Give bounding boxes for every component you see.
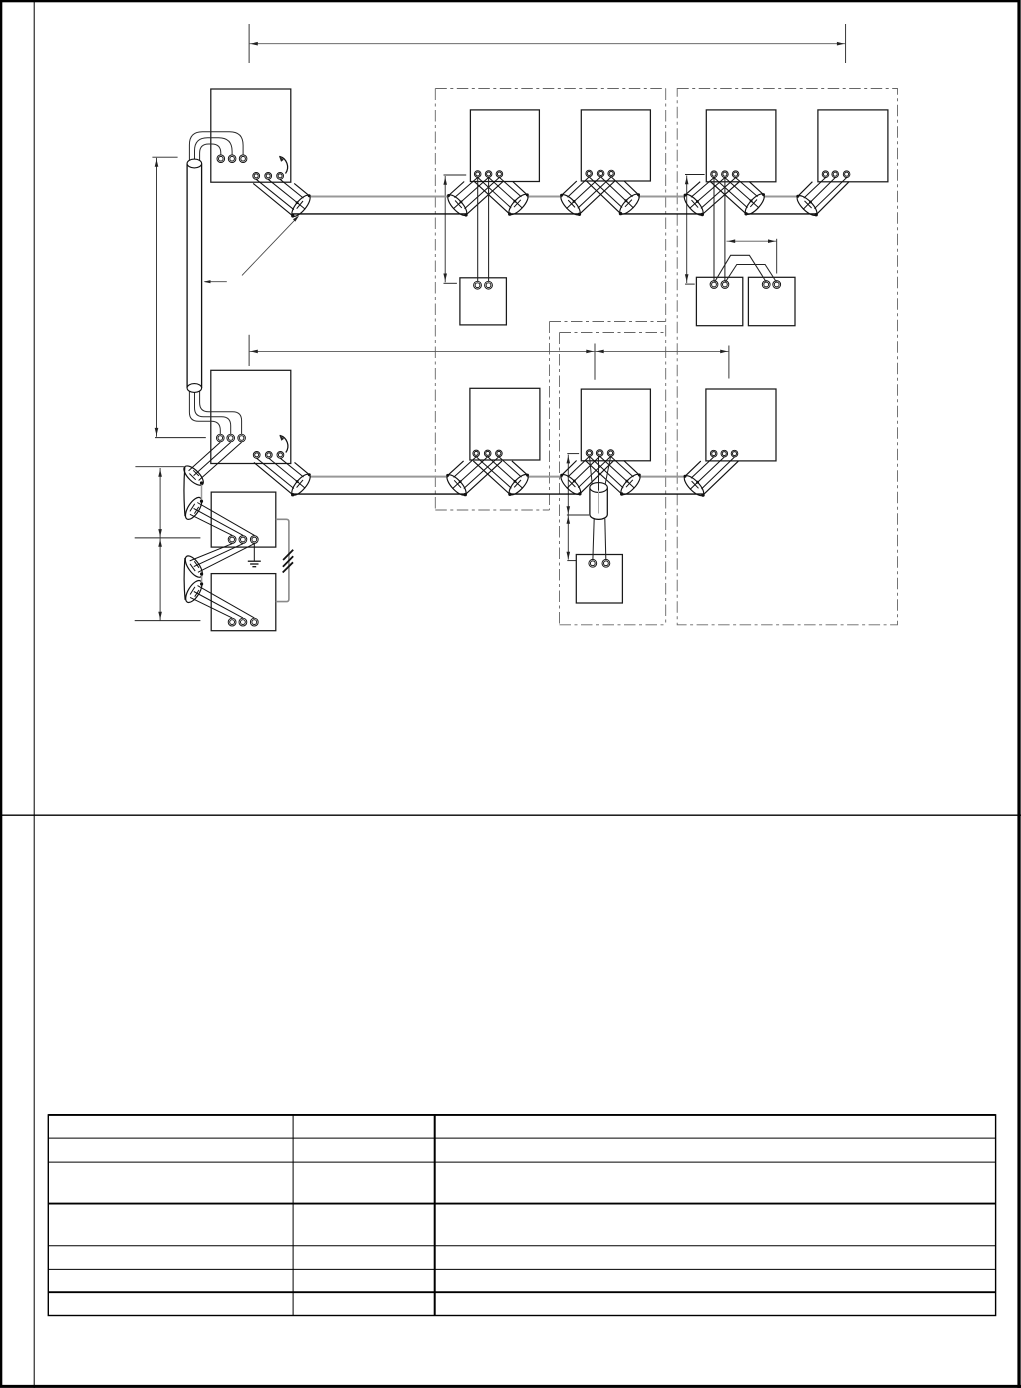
unit box D: [818, 110, 888, 182]
unit box B: [581, 110, 650, 181]
pin row row2-left box left: [217, 434, 225, 442]
wires cylinder to sub box G: [593, 519, 594, 560]
dimension sub-box spacing group2: [727, 239, 777, 274]
sub box E: [696, 277, 742, 325]
cable connector E7: [711, 178, 768, 218]
leader line to tube: [205, 281, 227, 283]
cable connector E3: [474, 177, 531, 217]
unit box A: [470, 110, 539, 182]
cable segment F1-F2: [310, 476, 449, 478]
pin row box D: [822, 171, 829, 178]
parts table: [48, 1115, 995, 1316]
cable body bell pair 1: [184, 467, 203, 516]
cable body bell pair 2: [184, 558, 203, 600]
main harness tube: [187, 159, 202, 392]
cable connector E1: [253, 179, 313, 219]
pin row amp H1: [228, 536, 236, 544]
pin row sub box E: [710, 281, 718, 289]
cable segment F3-F4: [527, 476, 562, 478]
pin row box D2: [710, 450, 717, 457]
cable end bell lower-1: [182, 495, 254, 535]
chained width dimension row2: [249, 335, 729, 380]
pin row box A2: [473, 450, 480, 457]
cable connector F3: [473, 457, 531, 498]
cable connector E6: [681, 178, 739, 218]
left margin column divider: [33, 0, 35, 1388]
cable connector F5: [585, 456, 643, 497]
unit box A2: [470, 388, 540, 460]
ferrite cylinder middle unit: [590, 457, 611, 520]
unit box C2: [581, 389, 650, 461]
sub box S1: [460, 278, 507, 325]
cable end bell upper-2: [182, 544, 254, 580]
pin row row2-left box right: [253, 452, 260, 459]
overall width dimension row1: [249, 24, 846, 63]
cable connector F6: [681, 457, 738, 499]
pin row top-left box left: [217, 155, 225, 163]
dimension bracket middle unit: [567, 454, 590, 561]
sub box F: [748, 277, 795, 325]
page right border extra: [1017, 0, 1020, 1388]
pin row top-left box right: [253, 173, 260, 180]
cable connector E2: [445, 177, 503, 218]
wires box C to sub box E: [713, 178, 715, 281]
dash-dot enclosure group1 outline: [435, 89, 665, 625]
sub box G: [576, 555, 622, 604]
pin row box B: [586, 170, 593, 177]
wire bundle tube to top-left box: [189, 132, 243, 161]
cable connector F4: [558, 456, 614, 497]
ground: [248, 544, 261, 567]
cable segment E7-E8: [763, 196, 798, 198]
page bottom border extra: [0, 1385, 1021, 1388]
speaker unit box row2-left: [211, 370, 291, 463]
cable segment F5-F6: [639, 476, 686, 478]
twist bracket H1-H2: [276, 519, 293, 601]
wires box A to sub box S1: [477, 178, 479, 282]
cable connector E5: [587, 177, 643, 217]
amp box H2: [211, 574, 276, 631]
cable segment E1-E2: [310, 196, 449, 198]
cable segment E5-E6: [638, 196, 685, 198]
pin row box A: [474, 171, 481, 178]
pin row sub box S1: [474, 281, 482, 289]
cable end bell upper-1: [181, 442, 242, 488]
section divider horizontal: [0, 814, 1021, 816]
dash-dot enclosure middle-unit inner outline: [560, 333, 666, 625]
rotation arrow top-left box: [279, 156, 287, 173]
cable connector F1: [254, 458, 313, 498]
wire bundle tube to row2-left box: [189, 391, 241, 434]
cable end bell lower-2: [183, 578, 255, 618]
cable segment E3-E4: [527, 196, 562, 198]
dimension bracket lower cables: [135, 467, 201, 621]
pin row sub box G: [589, 559, 597, 567]
cable connector F2: [444, 457, 502, 498]
dimension bracket tube length: [152, 157, 205, 437]
cable connector E8: [794, 178, 849, 219]
amp box H1: [211, 492, 276, 547]
unit box C: [706, 110, 776, 182]
leader line to cable connector: [242, 217, 298, 276]
cable connector E4: [558, 177, 615, 218]
pin row box C: [711, 171, 718, 178]
jumper wires sub box E to F: [715, 255, 777, 282]
pin row amp H2: [228, 618, 236, 626]
dimension bracket group2 drop: [685, 175, 705, 285]
dimension bracket group1 drop: [443, 175, 466, 283]
speaker unit box top-left: [211, 89, 291, 182]
unit box D2: [706, 389, 776, 461]
pin row box C2: [586, 450, 593, 457]
dash-dot enclosure group2 outline: [677, 89, 897, 625]
rotation arrow row2-left box: [280, 435, 288, 452]
pin row sub box F: [762, 281, 770, 289]
